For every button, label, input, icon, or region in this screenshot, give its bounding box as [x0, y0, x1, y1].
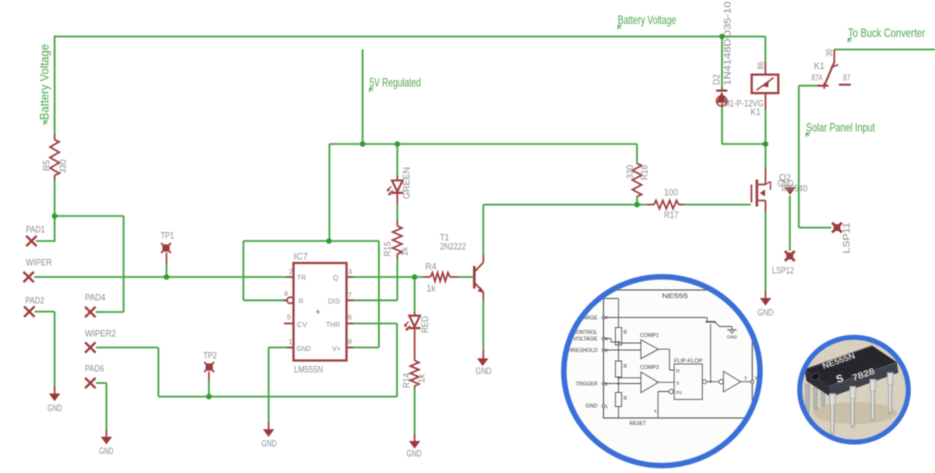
svg-text:Solar Panel Input: Solar Panel Input	[806, 121, 875, 135]
svg-text:Q: Q	[333, 275, 339, 282]
svg-text:PAD6: PAD6	[85, 364, 104, 374]
svg-text:100: 100	[664, 188, 678, 198]
svg-text:COMP1: COMP1	[640, 333, 659, 339]
svg-text:FLIP-FLOP: FLIP-FLOP	[674, 358, 703, 364]
svg-text:GND: GND	[727, 335, 737, 340]
svg-text:30: 30	[825, 49, 834, 57]
svg-text:1k: 1k	[417, 374, 427, 383]
svg-text:4: 4	[654, 409, 657, 414]
svg-text:CV: CV	[297, 322, 307, 329]
svg-text:+: +	[315, 307, 320, 317]
svg-text:GREEN: GREEN	[402, 167, 412, 199]
svg-text:WIPER2: WIPER2	[85, 329, 116, 339]
svg-text:1k: 1k	[427, 284, 436, 294]
svg-text:DIS: DIS	[328, 298, 340, 305]
svg-text:R: R	[624, 330, 628, 336]
svg-text:K1: K1	[751, 107, 761, 117]
svg-text:Battery Voltage: Battery Voltage	[618, 13, 677, 27]
svg-text:IC7: IC7	[294, 252, 309, 262]
svg-text:R: R	[624, 396, 628, 402]
svg-text:5: 5	[605, 337, 608, 342]
svg-text:VOLTAGE: VOLTAGE	[573, 337, 598, 343]
svg-text:7: 7	[348, 290, 352, 299]
svg-text:1: 1	[288, 337, 292, 346]
svg-text:K1: K1	[814, 61, 825, 71]
svg-text:WIPER: WIPER	[26, 258, 52, 268]
svg-text:GND: GND	[476, 366, 492, 376]
svg-text:RED: RED	[420, 316, 430, 333]
svg-text:GND: GND	[297, 346, 312, 353]
svg-text:GND: GND	[758, 308, 774, 318]
svg-text:R17: R17	[664, 210, 679, 220]
svg-text:86: 86	[757, 61, 766, 69]
svg-text:5V Regulated: 5V Regulated	[369, 76, 421, 90]
svg-text:RESET: RESET	[630, 421, 647, 427]
svg-text:LM555N: LM555N	[294, 365, 323, 375]
svg-text:THRESHOLD: THRESHOLD	[565, 348, 598, 354]
svg-text:PAD4: PAD4	[85, 293, 106, 303]
svg-text:R14: R14	[402, 373, 412, 388]
svg-text:PAD1: PAD1	[26, 225, 45, 235]
svg-text:R4: R4	[425, 262, 436, 272]
svg-text:6: 6	[605, 348, 608, 353]
svg-text:R: R	[299, 298, 304, 305]
svg-text:To Buck Converter: To Buck Converter	[848, 26, 925, 40]
svg-text:THR: THR	[326, 322, 340, 329]
svg-text:330: 330	[625, 165, 635, 179]
svg-text:5: 5	[287, 312, 291, 321]
svg-text:330: 330	[58, 160, 68, 174]
svg-text:S: S	[676, 381, 679, 386]
svg-text:2: 2	[289, 267, 293, 276]
svg-text:TRIGGER: TRIGGER	[576, 381, 598, 387]
svg-text:87: 87	[843, 74, 851, 83]
svg-text:GND: GND	[99, 446, 114, 456]
svg-text:3: 3	[744, 376, 747, 381]
svg-text:IRF540: IRF540	[782, 184, 808, 194]
svg-text:NE555: NE555	[662, 293, 689, 300]
svg-text:87A: 87A	[812, 74, 824, 83]
svg-text:LSP11: LSP11	[842, 223, 852, 254]
svg-text:3: 3	[348, 267, 352, 276]
svg-text:GND: GND	[48, 403, 63, 413]
svg-text:R: R	[624, 364, 628, 370]
svg-text:LSP12: LSP12	[772, 266, 794, 276]
svg-text:GND: GND	[586, 404, 598, 410]
svg-text:GND: GND	[262, 439, 277, 449]
svg-text:R16: R16	[640, 165, 650, 180]
svg-text:GND: GND	[407, 449, 422, 459]
svg-text:COMP2: COMP2	[640, 365, 659, 371]
svg-text:CONTROL: CONTROL	[573, 330, 598, 336]
svg-text:TP1: TP1	[161, 231, 175, 241]
svg-text:D2: D2	[712, 74, 722, 85]
svg-text:1: 1	[605, 404, 608, 409]
svg-text:6: 6	[348, 312, 352, 321]
svg-text:R1: R1	[676, 390, 682, 395]
svg-text:PAD2: PAD2	[25, 296, 44, 306]
svg-text:8: 8	[348, 337, 352, 346]
svg-text:TP2: TP2	[203, 351, 217, 361]
svg-text:1k: 1k	[400, 247, 410, 256]
svg-text:1N4148DO35-10: 1N4148DO35-10	[723, 2, 733, 86]
svg-text:2: 2	[605, 382, 608, 387]
svg-text:R5: R5	[42, 160, 52, 171]
svg-text:R15: R15	[383, 242, 393, 257]
svg-text:V+: V+	[332, 346, 341, 353]
svg-text:4: 4	[284, 289, 288, 298]
svg-text:2N2222: 2N2222	[440, 242, 466, 252]
svg-text:Battery Voltage: Battery Voltage	[38, 44, 52, 120]
svg-text:7: 7	[605, 316, 608, 321]
svg-text:TR: TR	[297, 275, 306, 282]
